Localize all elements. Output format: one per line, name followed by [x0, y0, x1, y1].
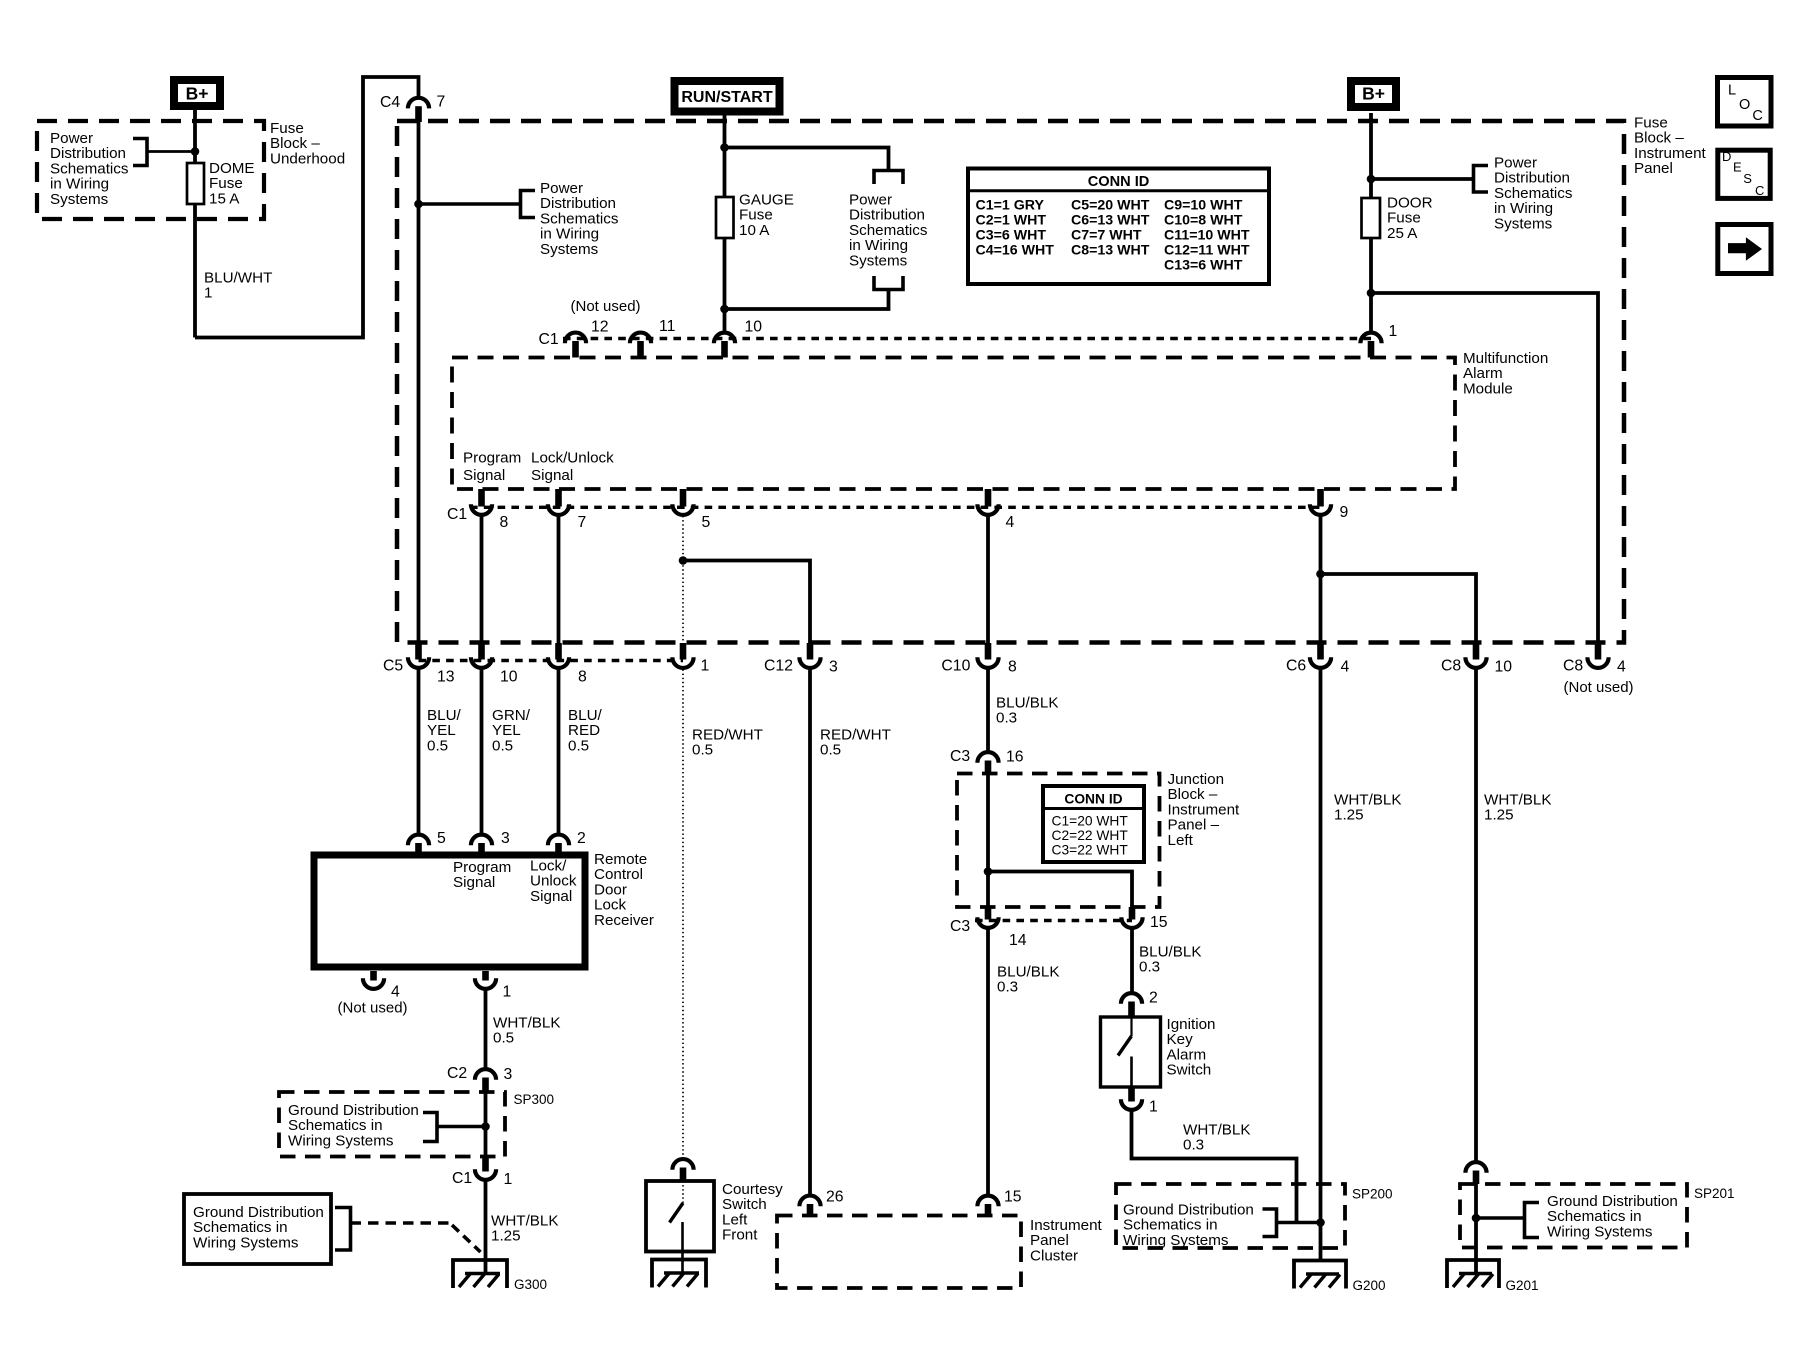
wire RED/WHT 0.5 to cluster pin 26 [808, 670, 812, 1195]
svg-text:C11=10 WHT: C11=10 WHT [1164, 227, 1250, 243]
svg-text:1.25: 1.25 [1334, 807, 1364, 824]
svg-text:1: 1 [701, 658, 710, 675]
module connector C1 top row line [563, 337, 1371, 340]
bracket of SP300 note [423, 1113, 437, 1142]
svg-text:Systems: Systems [849, 252, 908, 269]
dashed pointer from G300 note to ground wire [351, 1221, 450, 1225]
fuse DOOR 25 A [1362, 198, 1381, 238]
svg-text:1: 1 [1149, 1099, 1158, 1116]
svg-text:C3: C3 [950, 918, 970, 935]
svg-text:C10: C10 [941, 658, 970, 675]
dashed box: power distribution note (underhood) [37, 121, 264, 219]
courtesy switch contact upper lead [682, 1181, 684, 1203]
svg-text:C13=6 WHT: C13=6 WHT [1164, 258, 1243, 274]
courtesy switch blade [670, 1203, 684, 1223]
wire: note bracket to B+ feed [147, 150, 195, 153]
svg-text:15 A: 15 A [209, 190, 240, 207]
wire BLU/BLK 0.3 to junction block C3 pin 16 [986, 670, 990, 752]
wire GRN/YEL 0.5 to receiver pin 3 [480, 670, 484, 834]
junction on pin 5 wire [679, 556, 688, 565]
wire WHT/BLK 1.25 to SP201/G201 [1474, 670, 1478, 1162]
wire: SP300 note bracket to main wire [437, 1125, 486, 1128]
junction to power distribution note (dome feed) [414, 200, 423, 209]
svg-text:RUN/START: RUN/START [681, 89, 772, 106]
upper bracket of gauge note [874, 171, 903, 185]
svg-text:C5: C5 [383, 658, 403, 675]
wire: RUN/START down to GAUGE fuse [723, 113, 727, 198]
wire: module pin 7 to C5 pin 8 [557, 516, 561, 643]
module pin 8 [478, 489, 485, 507]
svg-text:14: 14 [1009, 932, 1027, 949]
courtesy switch connector pin [672, 1159, 693, 1170]
wire: branch to C8 pin 10 [1321, 574, 1477, 643]
svg-text:26: 26 [826, 1189, 844, 1206]
svg-text:10: 10 [745, 319, 763, 336]
svg-text:(Not used): (Not used) [338, 999, 408, 1016]
ground G200 [1294, 1261, 1346, 1289]
svg-text:3: 3 [829, 658, 838, 675]
svg-text:Panel: Panel [1634, 160, 1673, 177]
connector C10 pin 8 [985, 643, 992, 660]
receiver pin 5 [408, 835, 429, 846]
svg-text:15: 15 [1150, 914, 1168, 931]
wire: module pin 8 to C5 pin 10 [480, 516, 484, 643]
connector C6 pin 4 [1317, 643, 1324, 660]
svg-text:C7=7 WHT: C7=7 WHT [1071, 227, 1142, 243]
connector C5 pin 8 [555, 643, 562, 660]
module pin 9 [1317, 489, 1324, 507]
dashed box: Multifunction Alarm Module [452, 358, 1455, 490]
svg-text:4: 4 [1617, 658, 1626, 675]
svg-text:8: 8 [500, 514, 509, 531]
svg-text:Module: Module [1463, 380, 1513, 397]
ignition switch blade [1118, 1036, 1132, 1056]
svg-text:B+: B+ [186, 84, 209, 104]
dashed box: splice SP300 ground distribution note [279, 1092, 505, 1157]
wire through SP201 to G201 [1474, 1184, 1478, 1274]
svg-text:10 A: 10 A [739, 222, 770, 239]
DESC legend box [1718, 150, 1770, 198]
wire BLU/RED 0.5 to receiver pin 2 [557, 670, 561, 834]
splice SP201 junction [1472, 1214, 1481, 1223]
receiver pin 2 [548, 835, 569, 846]
junction above DOOR fuse [1367, 175, 1376, 184]
svg-text:C1=1 GRY: C1=1 GRY [976, 197, 1045, 213]
svg-text:SP300: SP300 [514, 1092, 555, 1107]
svg-text:Front: Front [722, 1227, 758, 1244]
wire BLU/BLK 0.3 to cluster pin 15 [986, 930, 990, 1195]
svg-text:8: 8 [578, 669, 587, 686]
svg-text:D: D [1722, 149, 1731, 164]
svg-text:C1: C1 [452, 1170, 472, 1187]
svg-text:Signal: Signal [531, 467, 573, 484]
svg-text:1: 1 [1389, 323, 1398, 340]
svg-text:0.5: 0.5 [568, 737, 589, 754]
svg-text:12: 12 [591, 319, 609, 336]
CONN ID table (junction block) [1043, 786, 1144, 862]
svg-text:C9=10 WHT: C9=10 WHT [1164, 197, 1243, 213]
module connector C1 bottom row line [470, 506, 1321, 509]
dashed box: Instrument Panel Cluster [777, 1216, 1021, 1289]
wire: BLU/WHT 1 from DOME fuse to C4 [193, 204, 197, 338]
svg-text:C4=16 WHT: C4=16 WHT [976, 242, 1055, 258]
svg-text:C: C [1752, 108, 1762, 124]
svg-text:1.25: 1.25 [491, 1228, 521, 1245]
wire loop to power distribution note (gauge) [725, 148, 889, 171]
svg-text:Receiver: Receiver [594, 912, 654, 929]
connector C3 pin 15 [1129, 907, 1136, 920]
wire: branch to C12 pin 3 [683, 561, 810, 644]
courtesy switch lower lead [681, 1222, 684, 1273]
power symbol B+ (left, fuse block underhood) [174, 80, 220, 106]
connector C5 pin 1 [680, 643, 687, 660]
svg-text:2: 2 [1149, 990, 1158, 1007]
svg-text:16: 16 [1006, 749, 1024, 766]
Remote Control Door Lock Receiver box [314, 855, 585, 967]
connector above SP201 [1465, 1162, 1486, 1173]
ignition switch pin 1 [1128, 1087, 1135, 1102]
junction above GAUGE fuse [720, 143, 729, 152]
module pin 1 [1360, 333, 1381, 344]
wire: DOOR fuse branch to C8 pin 4 [1371, 293, 1598, 643]
wire: B+ down to DOOR fuse and module pin 1 [1369, 113, 1373, 332]
svg-text:5: 5 [437, 830, 446, 847]
wire: SP201 note bracket to ground wire [1476, 1216, 1525, 1219]
svg-text:Systems: Systems [540, 241, 599, 258]
power symbol B+ (right, fuse block instrument panel) [1351, 81, 1396, 107]
module pin 5 [680, 489, 687, 507]
svg-text:Left: Left [1168, 832, 1194, 849]
svg-text:C8=13 WHT: C8=13 WHT [1071, 242, 1150, 258]
svg-text:1: 1 [503, 984, 512, 1001]
wire: B+ down to DOME fuse [193, 110, 197, 164]
svg-text:11: 11 [659, 318, 676, 335]
svg-text:0.5: 0.5 [692, 742, 713, 759]
wire: to power distribution note (door) [1371, 177, 1474, 181]
wire: gauge note loop return [725, 290, 889, 310]
svg-text:B+: B+ [1362, 84, 1385, 104]
connector C3 pin 16 [977, 752, 998, 763]
svg-text:0.5: 0.5 [492, 737, 513, 754]
svg-text:C2=22 WHT: C2=22 WHT [1052, 828, 1129, 843]
connector C4 pin 7 [408, 98, 429, 109]
ground below courtesy switch [652, 1260, 706, 1288]
svg-text:CONN ID: CONN ID [1088, 174, 1150, 190]
bracket of door note [1474, 166, 1489, 193]
wire WHT/BLK 1.25 to G300 [484, 1182, 488, 1275]
svg-text:C1=20 WHT: C1=20 WHT [1052, 813, 1129, 828]
svg-text:4: 4 [1006, 514, 1015, 531]
svg-text:1: 1 [204, 285, 212, 302]
dashed box: splice SP201 ground distribution note [1460, 1184, 1687, 1248]
junction on B+ feed [191, 147, 200, 156]
receiver pin 4 (not used) [370, 971, 377, 981]
svg-text:1: 1 [504, 1171, 513, 1188]
svg-text:C1: C1 [447, 506, 467, 523]
dashed box: Fuse Block - Instrument Panel [397, 121, 1624, 643]
svg-text:O: O [1739, 97, 1750, 113]
svg-text:13: 13 [437, 669, 455, 686]
svg-text:10: 10 [500, 669, 518, 686]
junction inside junction block [984, 867, 993, 876]
ignition switch pin 2 [1121, 993, 1142, 1004]
ground G300 [453, 1260, 507, 1288]
svg-text:G201: G201 [1506, 1278, 1539, 1293]
svg-text:Signal: Signal [530, 888, 572, 905]
svg-text:Signal: Signal [463, 467, 505, 484]
svg-text:1.25: 1.25 [1484, 807, 1514, 824]
splice SP300 junction [481, 1122, 490, 1131]
connector C5 row line [419, 659, 684, 662]
svg-text:CONN ID: CONN ID [1064, 792, 1122, 807]
svg-text:G300: G300 [514, 1277, 547, 1292]
bracket of G300 note box [335, 1208, 351, 1251]
svg-text:25 A: 25 A [1387, 225, 1418, 242]
CONN ID table (fuse block) [968, 169, 1269, 285]
svg-text:C6=13 WHT: C6=13 WHT [1071, 212, 1150, 228]
svg-text:2: 2 [577, 830, 586, 847]
bracket of SP200 note [1263, 1209, 1277, 1237]
connector C1 pin 1 [482, 1157, 489, 1172]
svg-text:C6: C6 [1286, 658, 1306, 675]
svg-text:S: S [1743, 171, 1752, 186]
wire WHT/BLK 0.5 receiver pin 1 to C2 [484, 990, 488, 1068]
wire: branch to C3 pin 15 [988, 872, 1132, 908]
wire: module pin 4 to C10 pin 8 [986, 516, 990, 643]
svg-text:C3=22 WHT: C3=22 WHT [1052, 843, 1129, 858]
arrow legend box [1718, 225, 1771, 274]
svg-text:Systems: Systems [50, 191, 109, 208]
svg-text:3: 3 [504, 1066, 513, 1083]
svg-text:C1: C1 [539, 331, 559, 348]
receiver pin 1 [482, 971, 489, 981]
power symbol RUN/START [675, 81, 780, 112]
connector C2 pin 3 [475, 1069, 496, 1080]
svg-text:C4: C4 [380, 94, 400, 111]
svg-text:10: 10 [1495, 658, 1513, 675]
svg-text:5: 5 [702, 514, 711, 531]
svg-text:C: C [1755, 183, 1764, 198]
wire: module pin 5 dotted to C5 pin 1 [682, 516, 684, 643]
svg-text:Lock/Unlock: Lock/Unlock [531, 450, 614, 467]
connector C5 pin 10 [478, 643, 485, 660]
svg-text:0.3: 0.3 [1183, 1137, 1204, 1154]
svg-text:G200: G200 [1353, 1278, 1386, 1293]
svg-text:Wiring Systems: Wiring Systems [1547, 1223, 1653, 1240]
junction on pin 9 wire [1316, 570, 1325, 579]
svg-text:0.3: 0.3 [1139, 959, 1160, 976]
connector C5 pin 13 [415, 643, 422, 660]
dashed box: splice SP200 ground distribution note [1116, 1184, 1345, 1248]
connector C12 pin 3 [807, 643, 814, 660]
wire BLU/BLK 0.3 to ignition key alarm switch [1130, 930, 1134, 993]
wire WHT/BLK 1.25 to SP200/G200 [1319, 670, 1323, 1261]
wire: SP200 note bracket to ground wire [1277, 1221, 1321, 1224]
svg-text:Signal: Signal [453, 874, 495, 891]
module pin 12 (not used) [565, 333, 586, 344]
svg-text:0.3: 0.3 [997, 979, 1018, 996]
svg-text:Systems: Systems [1494, 215, 1553, 232]
dashed box: Junction Block - Instrument Panel - Left [957, 774, 1160, 908]
svg-text:C3: C3 [950, 748, 970, 765]
fuse DOME 15 A [187, 163, 204, 204]
svg-text:C2=1 WHT: C2=1 WHT [976, 212, 1047, 228]
svg-text:(Not used): (Not used) [1564, 679, 1634, 696]
svg-text:Cluster: Cluster [1030, 1247, 1078, 1264]
connector C8 pin 4 (not used) [1595, 643, 1602, 660]
bracket of dome feed note [521, 191, 536, 218]
svg-text:0.5: 0.5 [820, 742, 841, 759]
wire RED/WHT 0.5 dotted to courtesy switch [682, 670, 684, 1158]
wire through SP300 [484, 1092, 488, 1157]
Ignition Key Alarm Switch box [1101, 1017, 1161, 1087]
svg-text:7: 7 [578, 514, 587, 531]
svg-text:Program: Program [463, 450, 521, 467]
svg-text:15: 15 [1004, 1189, 1022, 1206]
svg-text:Wiring Systems: Wiring Systems [1123, 1232, 1229, 1249]
Courtesy Switch Left Front box [646, 1181, 714, 1252]
svg-text:(Not used): (Not used) [571, 298, 641, 315]
svg-text:SP200: SP200 [1352, 1187, 1393, 1202]
svg-text:3: 3 [501, 830, 510, 847]
svg-text:BLU/WHT: BLU/WHT [204, 270, 272, 287]
svg-text:C10=8 WHT: C10=8 WHT [1164, 212, 1243, 228]
svg-text:L: L [1728, 83, 1736, 99]
svg-text:C5=20 WHT: C5=20 WHT [1071, 197, 1150, 213]
wire through junction block [986, 774, 990, 908]
wire BLU/YEL 0.5 to receiver pin 5 [417, 670, 421, 834]
bracket of SP201 note [1525, 1203, 1540, 1238]
module pin 10 [714, 333, 735, 344]
ignition switch lower contact [1130, 1057, 1133, 1088]
svg-text:0.5: 0.5 [493, 1030, 514, 1047]
module pin 7 [555, 489, 562, 507]
svg-text:9: 9 [1340, 504, 1349, 521]
junction below GAUGE fuse [720, 305, 729, 314]
splice SP200 junction [1316, 1218, 1325, 1227]
svg-text:C12: C12 [764, 658, 793, 675]
ground G201 [1447, 1260, 1499, 1288]
lower bracket of gauge note [874, 276, 903, 290]
svg-text:C3=6 WHT: C3=6 WHT [976, 227, 1047, 243]
connector C3 row line [975, 919, 1132, 922]
fuse GAUGE 10 A [716, 197, 734, 238]
svg-text:Underhood: Underhood [270, 150, 345, 167]
module pin 11 (not used) [630, 333, 651, 344]
svg-text:4: 4 [391, 984, 400, 1001]
svg-text:C8: C8 [1563, 658, 1583, 675]
svg-text:Switch: Switch [1167, 1062, 1212, 1079]
svg-text:C12=11 WHT: C12=11 WHT [1164, 242, 1250, 258]
wire WHT/BLK 0.3 to SP200 [1132, 1112, 1297, 1223]
svg-text:C8: C8 [1441, 658, 1461, 675]
junction below DOOR fuse [1367, 289, 1376, 298]
note box: Ground Distribution Schematics in Wiring Systems (G300) [184, 1194, 331, 1264]
svg-text:0.5: 0.5 [427, 737, 448, 754]
svg-text:4: 4 [1341, 658, 1350, 675]
svg-text:Wiring Systems: Wiring Systems [288, 1132, 394, 1149]
svg-text:8: 8 [1008, 658, 1017, 675]
svg-text:C2: C2 [447, 1065, 467, 1082]
svg-text:0.3: 0.3 [996, 710, 1017, 727]
LOC legend box [1718, 78, 1772, 127]
svg-text:E: E [1733, 159, 1742, 174]
wire: C4 pin 7 down through fuse block to C5 pin 13 [417, 122, 421, 643]
svg-text:7: 7 [437, 94, 446, 111]
svg-text:Wiring Systems: Wiring Systems [193, 1234, 299, 1251]
bracket for underhood note [133, 139, 147, 166]
receiver pin 3 [471, 835, 492, 846]
ignition switch upper contact [1130, 1017, 1132, 1036]
wire: GAUGE fuse to module pin 10 [723, 238, 727, 332]
cluster pin 26 [799, 1196, 820, 1207]
svg-text:SP201: SP201 [1694, 1186, 1735, 1201]
connector C8 pin 10 [1473, 643, 1480, 660]
connector C3 pin 14 [985, 907, 992, 920]
module pin 4 [985, 489, 992, 507]
cluster pin 15 [977, 1196, 998, 1207]
wire: module pin 9 to C6 pin 4 [1319, 516, 1323, 643]
